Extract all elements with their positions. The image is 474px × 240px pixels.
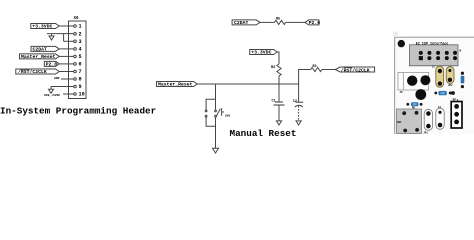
svg-text:Manual Reset: Manual Reset: [230, 128, 297, 139]
svg-text:P2.0: P2.0: [309, 20, 321, 26]
photo big hole B: [420, 75, 430, 85]
wire pin9: [51, 86, 74, 88]
svg-text:10: 10: [79, 92, 85, 98]
resistor R5 (top): [275, 18, 286, 25]
net label P2.0 (top middle): [305, 20, 320, 26]
svg-text:R5: R5: [276, 18, 280, 22]
connector X6: [69, 17, 87, 99]
svg-text:X6: X6: [74, 17, 80, 21]
svg-text:GND: GND: [54, 77, 60, 80]
resistor R3 (series): [311, 65, 322, 72]
svg-text:R2: R2: [271, 66, 275, 70]
svg-text:/RST/C2CLK: /RST/C2CLK: [341, 67, 370, 73]
wire pin2: [47, 33, 74, 35]
photo white component block: [398, 73, 429, 91]
svg-text:+3.3VDC: +3.3VDC: [32, 24, 52, 30]
photo solder pad: [451, 91, 455, 95]
wire pin6: [59, 63, 73, 65]
svg-text:4: 4: [79, 47, 82, 53]
wire: [322, 69, 335, 71]
svg-text:R3: R3: [313, 65, 317, 69]
photo connector JP6: [410, 45, 462, 66]
wire: [277, 52, 279, 64]
pin circles 1-10: [74, 25, 77, 28]
svg-text:5: 5: [79, 54, 82, 60]
svg-text:7: 7: [79, 69, 82, 75]
svg-text:In-System Programming Header: In-System Programming Header: [0, 105, 156, 116]
photo corner tab artifact: [394, 32, 399, 38]
wire pin3: [64, 34, 74, 42]
photo blue chip R2: [406, 102, 422, 109]
switch SW1 (pushbutton): [205, 99, 230, 126]
svg-text:+3.3VDC: +3.3VDC: [251, 50, 271, 56]
wire pin10 + USB_+5VDC name: [44, 94, 74, 97]
wire to switch: [215, 84, 217, 99]
wire pin8 + GND name: [54, 77, 74, 80]
photo border top: [395, 36, 474, 38]
wire (main horizontal net): [197, 83, 298, 85]
svg-text:Master_Reset: Master_Reset: [21, 54, 56, 60]
capacitor C1: [272, 84, 285, 121]
photo: EZ ISP interface board: [394, 32, 474, 135]
svg-text:/RST/C2CLK: /RST/C2CLK: [18, 69, 47, 75]
wire: [260, 21, 274, 23]
svg-text:SW1: SW1: [397, 121, 402, 124]
svg-text:SW1: SW1: [225, 115, 231, 118]
ground (pins 2,3): [49, 34, 54, 40]
photo tan cap C6: [432, 65, 444, 87]
net label +3.3VDC (pin 1): [31, 24, 60, 30]
net label Master_Reset (pin 5): [20, 54, 60, 60]
svg-text:2: 2: [79, 32, 82, 38]
ground (C1): [276, 121, 281, 125]
photo blue chip R1: [434, 91, 451, 95]
photo mounting hole: [398, 40, 405, 47]
net label Master_Reset (manual reset): [157, 82, 198, 88]
wire pin4: [59, 48, 73, 50]
photo background: [395, 37, 474, 134]
pin numbers 1-10: [79, 24, 85, 98]
photo border left: [394, 37, 396, 134]
net label /RST/C2CLK (pin 7): [16, 69, 60, 75]
svg-text:C2DAT: C2DAT: [234, 20, 249, 26]
net label /RST/C2CLK (manual reset): [335, 67, 374, 73]
svg-text:JP1: JP1: [423, 132, 428, 135]
svg-text:Master_Reset: Master_Reset: [158, 82, 193, 88]
svg-text:C1: C1: [272, 100, 276, 104]
svg-text:9: 9: [79, 84, 82, 90]
net label +3.3VDC (manual reset): [250, 50, 278, 56]
ground (C2): [296, 121, 301, 125]
svg-text:6: 6: [79, 62, 82, 68]
photo blue cap (right): [461, 72, 465, 89]
resistor R2 (pull-up, vertical): [271, 64, 281, 76]
photo tan cap C7: [446, 67, 454, 88]
svg-text:JP: JP: [400, 91, 404, 94]
wire pin1: [59, 25, 73, 27]
wire: [286, 21, 305, 23]
svg-text:1: 1: [79, 24, 82, 30]
svg-text:8: 8: [79, 77, 82, 83]
photo button SW1: [397, 109, 422, 134]
net label C2DAT (pin 4): [31, 46, 59, 52]
net label C2DAT (top middle): [232, 20, 260, 26]
svg-text:USB_+5VDC: USB_+5VDC: [44, 94, 60, 97]
svg-text:P2.0: P2.0: [46, 62, 58, 68]
wire: [278, 76, 280, 84]
svg-text:JP2: JP2: [448, 84, 453, 87]
photo stadium JP3: [436, 106, 444, 130]
svg-text:C2: C2: [293, 100, 297, 104]
svg-text:C1: C1: [432, 65, 436, 68]
wire pin5: [59, 55, 73, 57]
ground (SW1): [213, 148, 219, 153]
svg-text:3: 3: [79, 39, 82, 45]
photo big hole A: [407, 76, 417, 86]
wire: [215, 126, 217, 148]
svg-text:C4: C4: [438, 106, 442, 109]
photo stadium JP1: [423, 109, 432, 134]
photo big hole C: [415, 89, 426, 100]
photo U2 (3-hole header): [451, 99, 462, 128]
wire pin7: [59, 71, 73, 73]
svg-text:C2DAT: C2DAT: [33, 47, 48, 53]
net label P2.0 (pin 6): [44, 61, 59, 67]
ground (pin 9): [49, 87, 54, 94]
wire riser to RST row: [299, 70, 311, 85]
capacitor C2 (polarized): [293, 84, 303, 121]
